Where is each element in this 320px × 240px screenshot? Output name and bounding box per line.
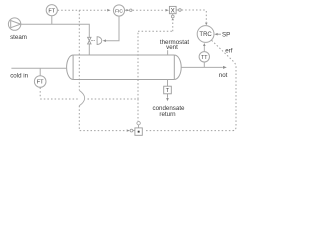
- arrowhead into FIC: [107, 9, 110, 12]
- svg-text:SP: SP: [222, 32, 230, 39]
- signal wire FT2 feedforward: down then right (dashed): [40, 88, 138, 100]
- multiplier block X: [169, 6, 176, 14]
- X bottom input port circle: [172, 14, 174, 15]
- signal wire steam-FT branch down left side (dashed, with hop): [78, 10, 80, 90]
- thermostat vent stub: [167, 50, 169, 55]
- wire steam pipe below valve to exchanger: [88, 44, 90, 55]
- arrowhead into TRC top: [205, 23, 208, 26]
- arrowhead outlet: [223, 66, 227, 69]
- signal wire junction down to condensate valve top (dashed): [137, 99, 139, 121]
- signal wire X output to TRC (dashed): [182, 10, 207, 22]
- hop arc over FT2 signal: [79, 90, 84, 105]
- wire steam supply pipe: [21, 24, 90, 37]
- svg-text:FT: FT: [37, 80, 44, 86]
- temperature controller TRC: [197, 26, 214, 43]
- steam trap T: [164, 86, 172, 94]
- flow transmitter FT2 (cold water): [34, 68, 46, 87]
- wire TT up to TRC with arrowhead: [203, 46, 205, 52]
- arrowhead up into X bottom port: [172, 18, 175, 20]
- wire FIC output to valve actuator: [106, 16, 120, 41]
- svg-text:TT: TT: [201, 55, 208, 61]
- wire below trap with arrowhead down: [167, 94, 169, 98]
- SP arrow into TRC: [217, 33, 221, 35]
- steam trap T stem: [167, 80, 169, 87]
- svg-text:X: X: [171, 8, 175, 15]
- svg-text:cold in: cold in: [10, 72, 28, 79]
- condensate control valve V2: [130, 122, 142, 136]
- svg-text:erf: erf: [225, 48, 233, 55]
- control valve V1 actuator dome: [97, 37, 102, 45]
- control valve V1 stem link dashes: [91, 40, 93, 42]
- svg-text:vent: vent: [166, 44, 178, 51]
- wire TT stem down to outlet pipe: [203, 62, 205, 67]
- hot water outlet wire: [181, 66, 223, 68]
- svg-text:FIC: FIC: [115, 9, 123, 15]
- flow controller FIC: [113, 5, 124, 16]
- signal wire FT1 to FIC (dashed): [58, 9, 107, 11]
- svg-text:T: T: [166, 88, 170, 94]
- control valve V1 body (bowtie): [88, 37, 91, 44]
- steam source pump P1: [8, 18, 20, 30]
- FIC output port circle: [130, 9, 132, 11]
- temperature transmitter TT: [199, 52, 209, 62]
- arrowhead into X: [165, 9, 168, 12]
- arrowhead into actuator: [103, 39, 106, 42]
- X output port circle (right): [176, 9, 178, 11]
- svg-text:steam: steam: [10, 34, 27, 41]
- signal wire junction up through shell to corner then to X (dashed): [138, 21, 173, 99]
- signal wire TRC to condensate valve (dashed diagonal then down then left): [144, 40, 236, 130]
- signal dashes to X: [133, 9, 165, 11]
- svg-text:TRC: TRC: [199, 32, 212, 38]
- FIC output arrowhead: [125, 9, 127, 11]
- svg-text:return: return: [159, 111, 176, 118]
- svg-text:FT: FT: [48, 8, 55, 14]
- flow transmitter FT1 (steam): [46, 5, 57, 25]
- heat exchanger E1 shell: [67, 55, 182, 80]
- cold water inlet wire: [11, 67, 67, 69]
- arrowhead into condensate valve left port: [127, 129, 130, 131]
- svg-text:not: not: [219, 72, 228, 79]
